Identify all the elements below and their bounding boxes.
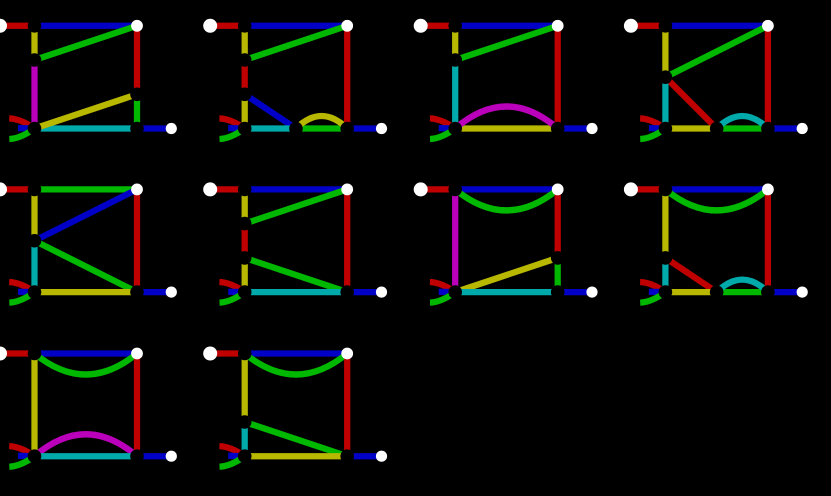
fig10 edge yellow: top-left to A	[242, 354, 248, 423]
fig7 node bottom-left	[448, 285, 462, 299]
fig4 green stub arc at bottom-left	[640, 129, 665, 140]
figure 6 drawing	[203, 182, 387, 302]
fig5 edge red: left terminal to top-left	[0, 186, 35, 192]
fig10 edge red: left terminal to top-left	[210, 350, 245, 356]
fig4 edge green: bottom-mid to bottom-right	[717, 125, 768, 131]
fig2 node A1	[238, 53, 252, 67]
fig9 edge yellow: left side	[31, 354, 37, 457]
fig5 green stub arc at bottom-left	[9, 292, 34, 303]
fig7 node top-left	[448, 183, 462, 197]
fig6 edge top: top-left to top-right	[245, 186, 348, 192]
fig2 edge yellow: top-left to A1	[242, 26, 248, 60]
fig4 edge blue: bottom-right to right terminal	[768, 125, 802, 131]
fig9 edge top: top-left to top-right	[35, 350, 138, 356]
fig6 green stub arc at bottom-left	[220, 292, 245, 303]
fig3 green stub arc at bottom-left	[430, 129, 455, 140]
figure 5 drawing	[0, 182, 177, 302]
fig9 blue stub at bottom-left	[18, 453, 35, 460]
fig4 edge cyan arc: bottom-mid to bottom-right	[717, 116, 768, 129]
figure 9 drawing	[0, 347, 177, 467]
fig1 green stub arc at bottom-left	[9, 129, 34, 140]
fig9 edge cyan: bottom	[35, 453, 138, 459]
fig6 edge yellow: top-left to A1	[242, 189, 248, 223]
fig7 edge top: top-left to top-right	[455, 186, 558, 192]
fig5 edge blue: A to top-right diagonal	[35, 189, 138, 240]
fig10 green stub arc at bottom-left	[220, 456, 245, 467]
fig3 right terminal dot	[586, 123, 597, 134]
fig7 right terminal dot	[586, 287, 597, 298]
fig2 node bottom-mid	[289, 122, 303, 136]
fig9 green stub arc at bottom-left	[9, 456, 34, 467]
fig8 right terminal dot	[797, 287, 808, 298]
fig4 edge red: left terminal to top-left	[631, 23, 666, 29]
fig8 edge red: A to bottom-mid diagonal	[665, 258, 716, 292]
fig4 node top-left	[659, 19, 673, 33]
fig9 node bottom-left	[28, 449, 42, 463]
fig1 node bottom-left	[28, 122, 42, 136]
fig1 edge yellow: bottom-left to B diagonal	[35, 94, 138, 128]
fig1 edge red: left terminal to top-left	[0, 23, 35, 29]
fig3 edge magenta arc: bottom-left to bottom-right	[455, 107, 558, 129]
fig4 edge yellow: bottom-left to bottom-mid	[665, 125, 716, 131]
fig1 edge green: A to top-right diagonal	[35, 26, 138, 60]
fig1 edge magenta: A to bottom-left	[31, 60, 37, 129]
fig3 node top-left	[448, 19, 462, 33]
fig10 edge green arc: top sagging	[245, 354, 348, 375]
fig5 node top-left	[28, 183, 42, 197]
fig2 node bottom-left	[238, 122, 252, 136]
fig5 edge yellow: bottom	[35, 289, 138, 295]
fig4 red stub arc at bottom-left	[640, 118, 665, 128]
fig7 edge magenta: left side	[452, 189, 458, 292]
fig3 edge yellow: top-left to A	[452, 26, 458, 60]
fig3 node bottom-right	[551, 122, 565, 136]
fig10 node bottom-left	[238, 449, 252, 463]
fig3 edge top: top-left to top-right	[455, 23, 558, 29]
fig9 right terminal dot	[166, 451, 177, 462]
fig10 right terminal dot	[376, 451, 387, 462]
fig8 edge green: bottom-mid to bottom-right	[717, 289, 768, 295]
fig6 edge blue: bottom-right to right terminal	[347, 289, 381, 295]
fig9 red stub arc at bottom-left	[9, 446, 34, 456]
fig5 edge blue: bottom-right to right terminal	[137, 289, 171, 295]
figure 3 drawing	[414, 19, 598, 139]
fig4 node bottom-left	[659, 122, 673, 136]
fig3 node bottom-left	[448, 122, 462, 136]
fig5 node bottom-right	[130, 285, 144, 299]
fig7 node bottom-right	[551, 285, 565, 299]
fig7 green stub arc at bottom-left	[430, 292, 455, 303]
fig2 top-right terminal dot	[341, 20, 353, 32]
fig6 node bottom-left	[238, 285, 252, 299]
fig9 left terminal dot	[0, 347, 7, 361]
fig4 edge yellow: top-left to A	[662, 26, 668, 77]
fig8 edge red: right side	[765, 189, 771, 292]
fig4 edge top: top-left to top-right	[665, 23, 768, 29]
fig6 edge red: right side	[344, 189, 350, 292]
fig1 edge cyan: bottom	[35, 125, 138, 131]
fig8 edge yellow: top-left to A	[662, 189, 668, 258]
fig7 left terminal dot	[414, 182, 428, 196]
fig8 edge red: left terminal to top-left	[631, 186, 666, 192]
fig2 edge blue: A2 to bottom-mid diagonal	[245, 94, 296, 128]
fig1 edge red: top-right to B	[134, 26, 140, 95]
fig7 edge green arc: top sagging	[455, 189, 558, 210]
fig9 top-right terminal dot	[131, 348, 143, 360]
fig8 top-right terminal dot	[762, 184, 774, 196]
figure 4 drawing	[624, 19, 808, 139]
fig5 edge cyan: A to bottom-left	[31, 241, 37, 292]
fig5 edge top: top-left to top-right	[35, 186, 138, 192]
fig1 blue stub at bottom-left	[18, 125, 35, 132]
fig6 node top-left	[238, 183, 252, 197]
fig2 green stub arc at bottom-left	[220, 129, 245, 140]
fig7 blue stub at bottom-left	[439, 289, 456, 296]
fig2 edge yellow arc: bottom-mid to bottom-right	[296, 116, 347, 129]
fig7 red stub arc at bottom-left	[430, 282, 455, 292]
fig8 left terminal dot	[624, 182, 638, 196]
fig9 edge magenta arc: bottom-left to bottom-right	[35, 434, 138, 456]
fig4 node A	[659, 70, 673, 84]
fig1 edge top: top-left to top-right	[35, 23, 138, 29]
fig2 node bottom-right	[340, 122, 354, 136]
fig3 edge red: left terminal to top-left	[421, 23, 456, 29]
fig6 edge green: A2 to bottom-right diagonal	[245, 258, 348, 292]
fig2 node top-left	[238, 19, 252, 33]
fig7 edge yellow: bottom-left to B diagonal	[455, 258, 558, 292]
fig4 edge cyan: A to bottom-left	[662, 77, 668, 128]
fig6 red stub arc at bottom-left	[219, 282, 244, 292]
fig1 edge green: B to bottom-right	[134, 94, 140, 128]
fig10 edge top: top-left to top-right	[245, 350, 348, 356]
fig6 blue stub at bottom-left	[228, 289, 245, 296]
fig9 edge red: right side	[134, 354, 140, 457]
fig6 node A1	[238, 217, 252, 231]
fig6 node bottom-right	[340, 285, 354, 299]
fig3 edge blue: bottom-right to right terminal	[558, 125, 592, 131]
fig2 node A2	[238, 88, 252, 102]
fig3 red stub arc at bottom-left	[430, 118, 455, 128]
fig10 node top-left	[238, 347, 252, 361]
fig10 node A	[238, 415, 252, 429]
fig10 node bottom-right	[340, 449, 354, 463]
fig6 edge green: A1 to top-right diagonal	[245, 189, 348, 223]
fig2 edge green: bottom-mid to bottom-right	[296, 125, 347, 131]
fig8 edge cyan: A to bottom-left	[662, 258, 668, 292]
fig8 red stub arc at bottom-left	[640, 282, 665, 292]
fig4 node bottom-right	[761, 122, 775, 136]
fig4 edge red: right side	[765, 26, 771, 129]
fig5 top-right terminal dot	[131, 184, 143, 196]
fig7 edge red: top-right to B	[555, 189, 561, 258]
fig8 edge top: top-left to top-right	[665, 186, 768, 192]
fig10 left terminal dot	[203, 347, 217, 361]
fig5 node bottom-left	[28, 285, 42, 299]
fig8 node bottom-left	[659, 285, 673, 299]
fig7 node B	[551, 251, 565, 265]
fig9 edge green arc: top sagging	[35, 354, 138, 375]
fig1 node A	[28, 53, 42, 67]
fig9 node top-left	[28, 347, 42, 361]
fig6 edge red: left terminal to top-left	[210, 186, 245, 192]
fig6 top-right terminal dot	[341, 184, 353, 196]
fig5 red stub arc at bottom-left	[9, 282, 34, 292]
fig6 node A2	[238, 251, 252, 265]
fig1 red stub arc at bottom-left	[9, 118, 34, 128]
fig3 left terminal dot	[414, 19, 428, 33]
fig4 edge red: A to bottom-mid diagonal	[665, 77, 716, 128]
fig8 edge cyan arc: bottom-mid to bottom-right	[717, 280, 768, 293]
fig1 edge yellow: top-left to A	[31, 26, 37, 60]
fig3 edge yellow: bottom	[455, 125, 558, 131]
fig5 edge red: right side	[134, 189, 140, 292]
fig5 edge green: A to bottom-right diagonal	[35, 241, 138, 292]
fig10 edge green: A to bottom-right diagonal	[245, 422, 348, 456]
fig3 edge cyan: A to bottom-left	[452, 60, 458, 129]
fig3 edge red: right side	[555, 26, 561, 129]
fig4 left terminal dot	[624, 19, 638, 33]
fig2 left terminal dot	[203, 19, 217, 33]
fig1 node B	[130, 88, 144, 102]
fig8 node A	[659, 251, 673, 265]
fig5 node A	[28, 234, 42, 248]
fig5 blue stub at bottom-left	[18, 289, 35, 296]
fig2 edge red: right side	[344, 26, 350, 129]
fig7 edge blue: bottom-right to right terminal	[558, 289, 592, 295]
fig8 node bottom-mid	[710, 285, 724, 299]
fig5 left terminal dot	[0, 182, 7, 196]
fig6 right terminal dot	[376, 287, 387, 298]
fig2 blue stub at bottom-left	[228, 125, 245, 132]
fig3 top-right terminal dot	[552, 20, 564, 32]
fig8 node top-left	[659, 183, 673, 197]
fig9 edge red: left terminal to top-left	[0, 350, 35, 356]
fig2 edge blue: bottom-right to right terminal	[347, 125, 381, 131]
fig8 edge yellow: bottom-left to bottom-mid	[665, 289, 716, 295]
fig10 edge cyan: A to bottom-left	[242, 422, 248, 456]
fig2 edge green: A1 to top-right diagonal	[245, 26, 348, 60]
fig2 edge cyan: bottom-left to bottom-mid	[245, 125, 296, 131]
fig10 edge red: right side	[344, 354, 350, 457]
fig3 blue stub at bottom-left	[439, 125, 456, 132]
fig3 node A	[448, 53, 462, 67]
fig10 top-right terminal dot	[341, 348, 353, 360]
fig2 edge red: A1 to A2	[242, 60, 248, 94]
fig7 edge cyan: bottom	[455, 289, 558, 295]
fig4 top-right terminal dot	[762, 20, 774, 32]
fig6 edge cyan: bottom	[245, 289, 348, 295]
fig9 node bottom-right	[130, 449, 144, 463]
figure 10 drawing	[203, 347, 387, 467]
figure 2 drawing	[203, 19, 387, 139]
fig1 edge blue: bottom-right to right terminal	[137, 125, 171, 131]
fig3 edge green: A to top-right diagonal	[455, 26, 558, 60]
fig4 node bottom-mid	[710, 122, 724, 136]
fig6 left terminal dot	[203, 182, 217, 196]
fig4 blue stub at bottom-left	[649, 125, 666, 132]
fig1 left terminal dot	[0, 19, 7, 33]
fig10 edge yellow: bottom	[245, 453, 348, 459]
fig4 right terminal dot	[797, 123, 808, 134]
fig7 top-right terminal dot	[552, 184, 564, 196]
fig1 node bottom-right	[130, 122, 144, 136]
fig4 edge green: A to top-right diagonal	[665, 26, 768, 77]
fig2 edge red: left terminal to top-left	[210, 23, 245, 29]
fig2 edge top: top-left to top-right	[245, 23, 348, 29]
fig2 right terminal dot	[376, 123, 387, 134]
fig10 edge blue: bottom-right to right terminal	[347, 453, 381, 459]
fig7 edge green: B to bottom-right	[555, 258, 561, 292]
fig10 blue stub at bottom-left	[228, 453, 245, 460]
fig5 edge yellow: top-left to A	[31, 189, 37, 240]
fig8 node bottom-right	[761, 285, 775, 299]
fig1 top-right terminal dot	[131, 20, 143, 32]
fig5 right terminal dot	[166, 287, 177, 298]
fig2 edge yellow: A2 to bottom-left	[242, 94, 248, 128]
fig10 red stub arc at bottom-left	[219, 446, 244, 456]
figure 7 drawing	[414, 182, 598, 302]
fig8 green stub arc at bottom-left	[640, 292, 665, 303]
fig1 right terminal dot	[166, 123, 177, 134]
fig6 edge yellow: A2 to bottom-left	[242, 258, 248, 292]
figure 8 drawing	[624, 182, 808, 302]
figure 1 drawing	[0, 19, 177, 139]
fig1 node top-left	[28, 19, 42, 33]
fig8 edge green arc: top sagging	[665, 189, 768, 210]
fig6 edge red: A1 to A2	[242, 224, 248, 258]
fig7 edge red: left terminal to top-left	[421, 186, 456, 192]
fig2 red stub arc at bottom-left	[219, 118, 244, 128]
fig8 blue stub at bottom-left	[649, 289, 666, 296]
fig9 edge blue: bottom-right to right terminal	[137, 453, 171, 459]
fig8 edge blue: bottom-right to right terminal	[768, 289, 802, 295]
